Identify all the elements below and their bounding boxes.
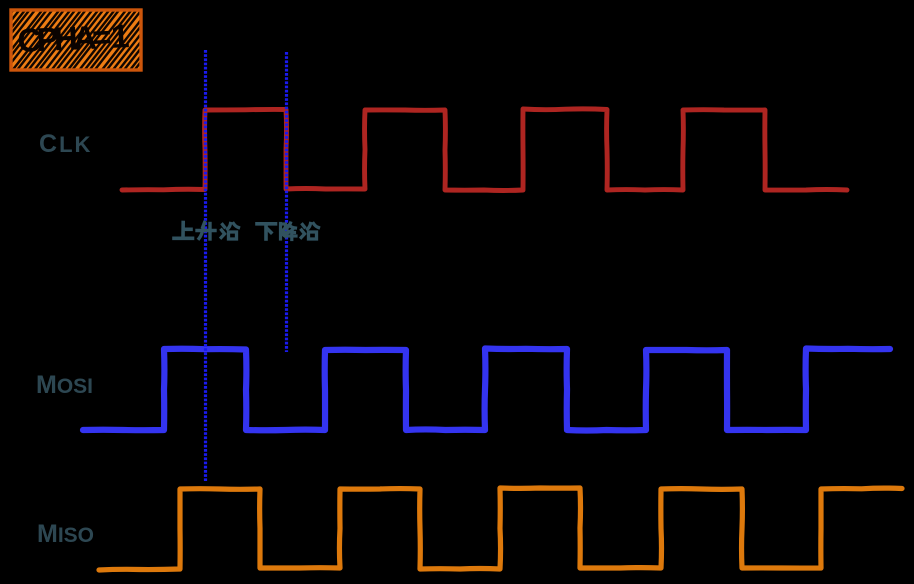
label 上升沿 (rising edge) bbox=[174, 223, 239, 240]
MISO waveform (orange data) bbox=[99, 488, 902, 570]
label 下降沿 (falling edge) bbox=[257, 223, 319, 240]
svg-text:MOSI: MOSI bbox=[36, 371, 93, 399]
svg-text:MISO: MISO bbox=[37, 520, 94, 548]
dashed marker line 2 (falling edge @x=286) bbox=[285, 52, 288, 352]
MOSI waveform (blue data) bbox=[83, 349, 890, 431]
CLK waveform (dark red clock) bbox=[122, 109, 847, 191]
dashed marker line 1 (rising edge @x=205) bbox=[204, 50, 207, 481]
title box CPHA=1 (orange hachure rectangle) bbox=[0, 10, 181, 70]
svg-text:CLK: CLK bbox=[39, 130, 92, 158]
svg-text:CPHA= 1: CPHA= 1 bbox=[17, 17, 131, 59]
